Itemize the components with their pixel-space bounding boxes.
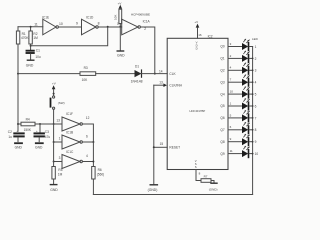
wire D1 to IC2 CLK pin 14 — [142, 69, 168, 73]
wire rail down to IC1C input — [54, 142, 62, 162]
node LED bus junction row 10 — [252, 153, 254, 155]
ground (below C3) — [35, 143, 43, 149]
ground (below C2) — [15, 143, 23, 149]
wire IC1B output to rail — [82, 141, 93, 143]
LED D5 (row 4) — [242, 75, 257, 86]
resistor R4 — [21, 118, 35, 132]
IC2 output Q8 pin wire — [220, 137, 242, 144]
svg-text:2: 2 — [230, 54, 232, 58]
LED D2 (row 1) — [242, 39, 257, 50]
svg-text:Q2: Q2 — [220, 69, 224, 73]
svg-text:9: 9 — [255, 140, 257, 144]
ground (after R7) — [209, 183, 218, 191]
wire clock line (left rail to R3) — [18, 73, 80, 75]
svg-text:14: 14 — [159, 69, 163, 73]
svg-text:C3: C3 — [45, 130, 49, 134]
IC2 output Q4 pin wire — [220, 90, 242, 97]
svg-text:11: 11 — [230, 149, 233, 153]
svg-text:1: 1 — [255, 45, 257, 49]
svg-text:IC2: IC2 — [208, 35, 213, 39]
svg-text:D: D — [196, 47, 198, 51]
svg-text:8: 8 — [98, 21, 100, 25]
node LED bus junction row 5 — [252, 93, 254, 95]
inverter IC1B — [59, 131, 88, 149]
node IC1B input junction — [53, 141, 55, 143]
svg-text:+: + — [16, 129, 18, 133]
resistor R3 — [80, 66, 96, 82]
svg-text:GND: GND — [26, 64, 34, 68]
wire R3 to D1 — [96, 73, 135, 75]
svg-text:470K: 470K — [21, 36, 29, 40]
svg-text:R3: R3 — [84, 66, 88, 70]
svg-text:10K: 10K — [82, 78, 89, 82]
svg-text:(SW): (SW) — [58, 101, 65, 105]
svg-text:GND: GND — [15, 145, 23, 149]
power +V (switch branch) — [52, 81, 56, 95]
power +V (IC2 pin 16) — [194, 20, 201, 51]
resistor pull-up (vertical, at IC1A input) — [114, 9, 122, 27]
wire switch rail down to IC1B input — [54, 124, 62, 142]
svg-text:13: 13 — [159, 81, 163, 85]
svg-text:IC1B: IC1B — [66, 131, 73, 135]
svg-text:1: 1 — [59, 136, 61, 140]
svg-text:RESET: RESET — [169, 146, 180, 150]
svg-text:Q4: Q4 — [220, 92, 224, 96]
svg-text:5: 5 — [230, 113, 232, 117]
node LED bus junction row 3 — [252, 69, 254, 71]
svg-text:IC1F: IC1F — [66, 112, 73, 116]
node IC1B output junction — [92, 141, 94, 143]
svg-text:(560): (560) — [97, 173, 104, 177]
LED D10 (row 9) — [242, 134, 257, 145]
resistor R7 — [201, 174, 214, 182]
node pull-up junction — [119, 26, 121, 28]
wire feedback (R2 bottom to IC1A input node) — [31, 27, 108, 46]
inverter IC1E — [42, 16, 63, 35]
diode D1 — [131, 65, 143, 84]
node CLK junction — [154, 73, 156, 75]
svg-text:+: + — [36, 129, 38, 133]
wire switch to oscillator node — [53, 109, 55, 124]
svg-text:10u: 10u — [35, 55, 41, 59]
IC2 output Q7 pin wire — [220, 125, 242, 132]
svg-text:13: 13 — [56, 118, 60, 122]
svg-text:3: 3 — [255, 69, 257, 73]
LED D7 (row 6) — [242, 99, 257, 110]
wire top input rail (node to IC1E pin 11) — [18, 23, 43, 27]
svg-text:(GND): (GND) — [209, 187, 218, 191]
svg-text:7: 7 — [230, 78, 232, 82]
IC2 output Q9 pin wire — [220, 149, 242, 156]
svg-text:8: 8 — [199, 172, 201, 176]
IC2 output Q3 pin wire — [220, 78, 242, 85]
IC2 output Q6 pin wire — [220, 113, 242, 120]
svg-text:11: 11 — [34, 23, 38, 27]
svg-text:IC1A: IC1A — [143, 19, 151, 23]
svg-text:6: 6 — [86, 135, 88, 139]
svg-text:IC1C: IC1C — [66, 150, 74, 154]
svg-text:9: 9 — [230, 137, 232, 141]
LED D11 (row 10) — [242, 146, 258, 157]
svg-text:2: 2 — [255, 57, 257, 61]
wire IC1C output to rail — [82, 162, 93, 167]
svg-text:1: 1 — [230, 101, 232, 105]
svg-text:12: 12 — [86, 116, 90, 120]
svg-text:Q6: Q6 — [220, 116, 224, 120]
LED D6 (row 5) — [242, 87, 257, 98]
resistor R5 — [52, 162, 63, 184]
node R2 top junction — [30, 26, 32, 28]
svg-text:6: 6 — [230, 125, 232, 129]
node feedback junction — [107, 26, 109, 28]
wire IC1E output to IC1D input — [58, 26, 81, 28]
svg-text:GND: GND — [35, 145, 43, 149]
svg-text:D1: D1 — [135, 65, 139, 69]
IC2 output Q5 pin wire — [220, 101, 242, 108]
node IC1C input junction — [53, 161, 55, 163]
svg-text:3: 3 — [230, 42, 232, 46]
svg-text:C1: C1 — [36, 49, 40, 53]
pin 8 VSS wire — [195, 159, 201, 181]
IC2 output Q0 pin wire — [220, 42, 242, 49]
LED column header — [252, 37, 259, 41]
svg-text:Q0: Q0 — [220, 45, 224, 49]
LED D4 (row 3) — [242, 63, 257, 74]
power +V (pull-up) — [118, 1, 123, 8]
capacitor C2 — [8, 129, 24, 142]
node IC1C output rail junction — [92, 142, 94, 163]
svg-text:Q1: Q1 — [220, 57, 224, 61]
ground (pin13/15 rail) — [148, 185, 158, 192]
node LED bus junction row 4 — [252, 81, 254, 83]
svg-text:R4: R4 — [26, 118, 30, 122]
svg-text:Q9: Q9 — [220, 152, 224, 156]
svg-text:1: 1 — [117, 22, 119, 26]
switch SW (push button) — [50, 96, 65, 109]
wire RESET pin 15 — [154, 142, 167, 147]
svg-text:15: 15 — [160, 142, 164, 146]
node R2 bottom junction — [30, 45, 32, 47]
svg-text:10: 10 — [59, 22, 63, 26]
ground (below R5) — [50, 185, 58, 192]
node rail-R4 junction — [17, 123, 19, 125]
svg-text:1M: 1M — [58, 173, 63, 177]
inverter IC1F — [56, 112, 89, 131]
LED D9 (row 8) — [242, 122, 257, 133]
svg-text:CLK/INH: CLK/INH — [169, 84, 182, 88]
node RESET junction — [153, 146, 155, 148]
ground (below C1) — [26, 60, 34, 67]
svg-text:Q3: Q3 — [220, 80, 224, 84]
wire IC1A input node to ground — [119, 27, 121, 50]
node LED bus junction row 6 — [252, 105, 254, 107]
svg-text:10K: 10K — [114, 15, 118, 20]
svg-text:5: 5 — [255, 93, 257, 97]
inverter IC1A — [117, 13, 151, 35]
svg-text:GND: GND — [50, 188, 58, 192]
svg-text:CLK: CLK — [169, 72, 176, 76]
svg-text:4: 4 — [230, 66, 232, 70]
svg-text:4: 4 — [86, 154, 88, 158]
resistor R6 — [92, 167, 105, 195]
svg-text:+V: +V — [118, 1, 122, 5]
svg-text:GND: GND — [117, 53, 125, 57]
wire oscillator line (left rail to IC1F input) — [18, 123, 62, 125]
svg-text:C2: C2 — [8, 130, 12, 134]
svg-text:47u: 47u — [45, 135, 51, 139]
node oscillator cross junction — [53, 123, 55, 125]
pin 13 CLK/INH wire with inverter wedge — [154, 81, 167, 87]
svg-text:IC1D: IC1D — [86, 15, 94, 19]
capacitor C3 — [35, 124, 51, 142]
svg-text:HCF4069UBE: HCF4069UBE — [131, 13, 150, 17]
svg-text:16: 16 — [198, 33, 202, 37]
wire LED cathode bus — [252, 47, 254, 195]
LED D3 (row 2) — [242, 51, 257, 62]
wire IC1A output to CLK node — [140, 27, 154, 74]
node LED bus junction row 7 — [252, 117, 254, 119]
svg-text:+V: +V — [194, 20, 198, 24]
svg-text:Q8: Q8 — [220, 140, 224, 144]
node LED bus junction row 9 — [252, 141, 254, 143]
svg-text:R7: R7 — [204, 174, 208, 178]
svg-text:Q7: Q7 — [220, 128, 224, 132]
svg-text:1u: 1u — [8, 135, 12, 139]
svg-text:Q5: Q5 — [220, 104, 224, 108]
wire pin13/pin15 ground rail — [153, 85, 155, 184]
svg-text:10: 10 — [230, 90, 234, 94]
resistor R1 — [16, 31, 29, 44]
inverter IC1C — [59, 150, 88, 168]
capacitor C1 — [27, 49, 41, 60]
node LED bus junction row 2 — [252, 58, 254, 60]
svg-text:1M: 1M — [33, 36, 38, 40]
resistor R2 — [29, 27, 38, 50]
svg-text:10: 10 — [255, 152, 259, 156]
svg-text:S: S — [195, 165, 197, 169]
svg-text:(GND): (GND) — [148, 188, 158, 192]
IC2 box (CD4017) — [167, 35, 228, 170]
svg-text:LED: LED — [252, 37, 259, 41]
node left rail to R3 junction — [17, 73, 19, 75]
svg-text:R6: R6 — [98, 168, 102, 172]
svg-text:8: 8 — [255, 128, 257, 132]
svg-text:2: 2 — [144, 27, 146, 31]
node switch top junction — [53, 93, 55, 95]
wire bottom return bus — [93, 194, 252, 196]
wire IC1F output to output rail — [82, 124, 93, 142]
IC2 output Q1 pin wire — [220, 54, 242, 61]
svg-text:6: 6 — [255, 104, 257, 108]
svg-text:IC1E: IC1E — [42, 16, 49, 20]
svg-text:+V: +V — [52, 81, 56, 85]
node LED bus junction row 8 — [252, 129, 254, 131]
node C3 junction — [39, 123, 41, 125]
svg-text:150K: 150K — [24, 128, 32, 132]
ground (below IC1A) — [117, 51, 125, 57]
svg-text:7: 7 — [255, 116, 257, 120]
LED D8 (row 7) — [242, 111, 257, 122]
svg-text:4: 4 — [255, 81, 257, 85]
wire left vertical rail — [17, 27, 19, 131]
inverter IC1D — [76, 15, 100, 34]
svg-text:9: 9 — [76, 21, 78, 25]
wire IC1D output to IC1A input — [98, 26, 122, 28]
svg-text:1N4148: 1N4148 — [131, 80, 143, 84]
svg-text:3: 3 — [59, 156, 61, 160]
svg-text:HCF4017BP: HCF4017BP — [190, 109, 206, 113]
IC2 output Q2 pin wire — [220, 66, 242, 73]
svg-text:R5: R5 — [58, 168, 62, 172]
